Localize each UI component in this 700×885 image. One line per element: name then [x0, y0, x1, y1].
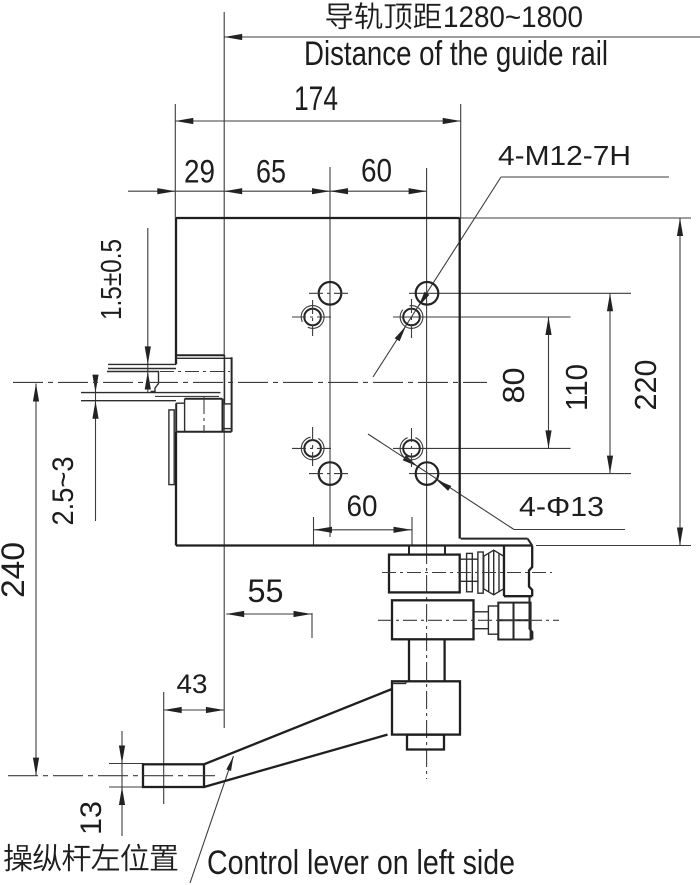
dimension 2.5~3: [95, 376, 97, 521]
svg-text:Distance of the guide rail: Distance of the guide rail: [304, 35, 608, 73]
clamp body lower block: [392, 600, 474, 639]
svg-text:4-Φ13: 4-Φ13: [519, 491, 604, 522]
svg-text:29: 29: [184, 154, 215, 190]
leader control lever: [190, 756, 234, 883]
dimension 174: [175, 120, 460, 122]
svg-text:60: 60: [347, 490, 378, 523]
washer 1: [467, 553, 473, 591]
rail flange strip: [169, 410, 174, 485]
rail clip: [151, 372, 159, 392]
hole 4-Phi13 bottom-right: [416, 462, 439, 485]
plate left edge lower: [175, 432, 177, 546]
svg-text:2.5~3: 2.5~3: [47, 457, 80, 526]
dimension 60 bottom: [313, 517, 315, 546]
hub nut: [407, 735, 444, 750]
tapped hole 4-M12-7H bottom-left: [304, 440, 321, 457]
lever hub: [392, 681, 460, 734]
svg-text:110: 110: [559, 364, 594, 411]
handle centerline: [8, 775, 215, 777]
svg-text:240: 240: [0, 542, 31, 598]
label guide rail distance (chinese): [326, 4, 352, 30]
svg-text:1280~1800: 1280~1800: [443, 1, 583, 34]
centerline lower bolt: [378, 619, 559, 621]
bracket lower limb: [530, 596, 533, 639]
clamp bolt centerline: [203, 396, 205, 433]
svg-text:174: 174: [294, 80, 338, 118]
dimension 110: [409, 292, 631, 294]
main horizontal centerline: [13, 381, 487, 383]
dimension 55: [311, 613, 313, 638]
bolt shank upper: [460, 558, 478, 560]
plate bottom edge: [176, 544, 532, 546]
upper clamp bolt centerline: [160, 371, 230, 373]
dimension 1.5±0.5: [147, 228, 149, 392]
bolt shank lower: [474, 611, 489, 613]
leader 4-M12-7H: [373, 177, 501, 377]
centerline upper bolt: [382, 572, 552, 574]
washer 3: [488, 606, 498, 634]
svg-text:80: 80: [496, 368, 531, 404]
dimension 220: [460, 217, 691, 219]
extension line long column x=224: [223, 12, 225, 728]
dimension 13: [121, 731, 123, 836]
extension lines 174: [174, 104, 176, 218]
lower clamp block: [185, 398, 223, 400]
label control lever (chinese): [4, 844, 32, 872]
plate left edge upper: [175, 218, 177, 364]
washer 2: [478, 552, 483, 593]
bracket right limb: [529, 546, 532, 597]
guide rail bottom lines: [81, 392, 221, 394]
svg-text:4-M12-7H: 4-M12-7H: [498, 140, 631, 171]
dimension guide rail distance 1280~1800: [224, 36, 700, 38]
shaft stub upper: [408, 546, 410, 555]
hole 4-Phi13 top-right: [416, 282, 439, 305]
svg-text:43: 43: [177, 669, 208, 699]
adjusting nut: [498, 603, 530, 640]
lever arm: [204, 689, 392, 764]
tapped hole 4-M12-7H top-left: [304, 309, 321, 326]
svg-text:55: 55: [248, 573, 284, 609]
hub top-left step: [392, 683, 406, 685]
svg-text:Control lever on left side: Control lever on left side: [207, 844, 515, 882]
shaft lower: [408, 639, 410, 681]
hole 4-Phi13 bottom-left: [319, 462, 342, 485]
svg-text:1.5±0.5: 1.5±0.5: [96, 239, 128, 320]
dimension 240: [35, 384, 37, 776]
svg-text:65: 65: [256, 154, 286, 190]
svg-text:60: 60: [361, 153, 392, 189]
plate right edge: [459, 218, 461, 539]
svg-text:220: 220: [628, 360, 663, 411]
dimension 29 65 60 top: [128, 190, 427, 192]
extension lines hole columns: [329, 167, 331, 537]
dimension 43: [163, 692, 165, 804]
tapped hole 4-M12-7H top-right: [403, 309, 420, 326]
leader 4-Phi13: [368, 434, 514, 530]
hole 4-Phi13 top-left: [319, 282, 342, 305]
dimension 80: [393, 316, 571, 318]
tapped hole 4-M12-7H bottom-right: [403, 440, 420, 457]
clamp body upper block: [389, 555, 460, 593]
lever handle: [143, 764, 204, 787]
plate top edge: [176, 217, 460, 219]
guide rail top lines: [108, 363, 176, 365]
hole centerlines: [309, 292, 348, 294]
svg-text:13: 13: [75, 801, 108, 835]
bracket top flange: [461, 538, 528, 540]
grease nipple: [484, 550, 504, 595]
upper clamp plate: [176, 354, 225, 356]
